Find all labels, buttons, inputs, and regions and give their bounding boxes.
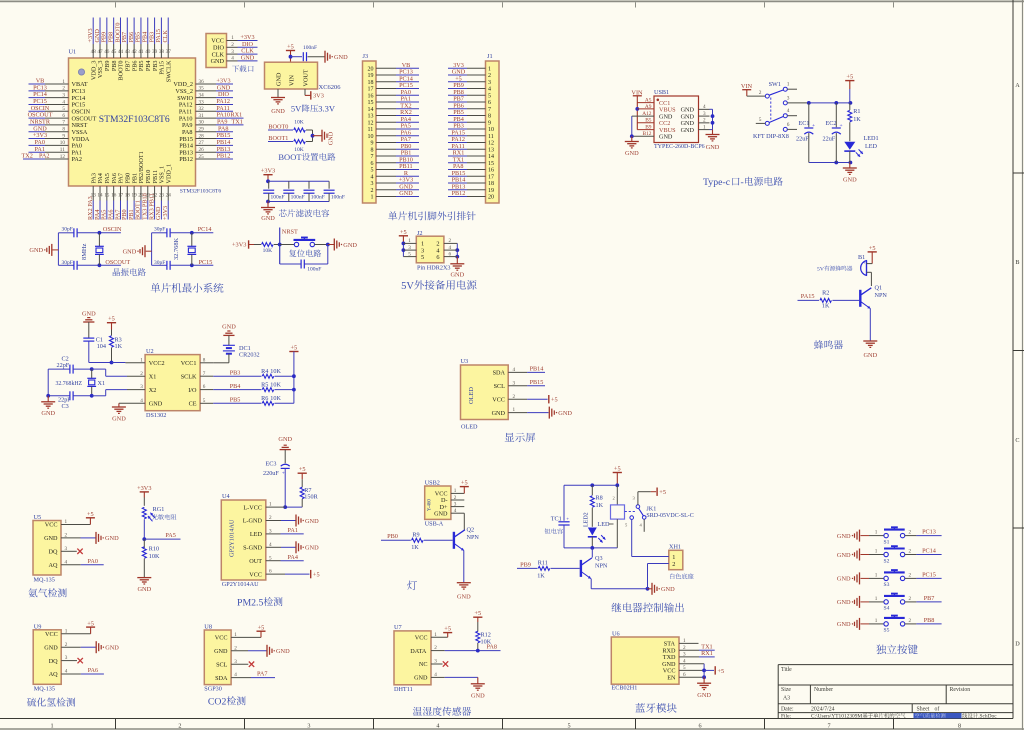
svg-text:NPN: NPN: [467, 534, 480, 541]
svg-text:L-GND: L-GND: [243, 518, 263, 525]
svg-text:I/O: I/O: [188, 387, 197, 394]
svg-text:S2: S2: [884, 558, 890, 564]
usb socket USB2 body: [425, 479, 465, 527]
power +5 R7: [298, 466, 307, 487]
Q1 emitter to ground: [863, 309, 877, 360]
R4R5R6 +5 rail: [289, 345, 298, 404]
switch SW1 pole 5-4: [756, 108, 797, 125]
connector XH1 body: [669, 544, 694, 579]
svg-text:C: C: [1015, 437, 1019, 444]
svg-text:30pF: 30pF: [154, 226, 165, 232]
switch SW1 pin 3 output: [783, 95, 809, 105]
svg-text:R12: R12: [481, 631, 491, 638]
power +5 R12: [473, 610, 482, 631]
svg-text:Pin HDR2X3: Pin HDR2X3: [417, 264, 451, 271]
U1 pin 48 VDD_3: [87, 18, 97, 81]
svg-text:+5: +5: [287, 44, 294, 51]
svg-text:S4: S4: [884, 606, 890, 612]
svg-text:GND: GND: [471, 693, 485, 700]
USB2 +5 power: [460, 479, 469, 493]
net label PB9 resistor R11 1K: [517, 559, 580, 579]
svg-text:.SchDoc: .SchDoc: [978, 714, 997, 720]
U1 pin 37 SWCLK: [162, 18, 172, 83]
svg-text:+5: +5: [614, 466, 621, 473]
svg-text:30pF: 30pF: [62, 226, 73, 232]
resistor R1 1K: [848, 103, 861, 141]
svg-text:GP2Y1014AU: GP2Y1014AU: [229, 519, 236, 557]
J1 pin 9 PB4: [448, 116, 491, 127]
svg-text:VCC: VCC: [45, 522, 58, 529]
svg-text:10K: 10K: [149, 553, 160, 560]
svg-text:GND: GND: [44, 535, 58, 542]
transistor Q3 NPN: [581, 548, 608, 579]
svg-text:GND: GND: [138, 586, 152, 593]
power +5 buzzer: [868, 245, 877, 264]
J1 pin 17 PB15: [448, 170, 494, 181]
svg-text:+: +: [812, 123, 815, 129]
svg-text:8: 8: [488, 114, 491, 120]
svg-text:20: 20: [368, 66, 374, 72]
display U3 OLED body: [461, 358, 509, 431]
J1 pin 14 RX1: [448, 150, 494, 161]
header J1 body: [486, 53, 500, 203]
U1 pin 36 VDD_2: [173, 78, 233, 89]
J1 pin 19 PB13: [448, 183, 494, 194]
svg-text:30pF: 30pF: [62, 260, 73, 266]
U1 pin 15 PA5: [101, 173, 111, 220]
svg-text:SWCLK: SWCLK: [165, 60, 172, 82]
svg-text:PB0: PB0: [387, 533, 398, 540]
svg-text:PC15: PC15: [922, 571, 936, 578]
svg-text:22pF: 22pF: [57, 362, 70, 369]
svg-text:GND: GND: [305, 518, 319, 525]
transistor Q2 NPN: [454, 513, 480, 550]
U8 pin2 ground: [231, 645, 290, 657]
U1 pin 47 VSS_3: [94, 18, 104, 79]
svg-text:19: 19: [488, 188, 494, 194]
svg-text:R10: R10: [149, 545, 159, 552]
capacitor TC1 tantalum: [545, 485, 570, 548]
svg-text:1: 1: [875, 530, 878, 536]
U1 pin 32 PA11: [179, 105, 233, 116]
svg-text:NPN: NPN: [595, 562, 608, 569]
svg-text:GND: GND: [211, 58, 225, 65]
USB1 shell ground wiring: [625, 116, 654, 157]
svg-text:of: of: [935, 706, 940, 713]
svg-text:VIN: VIN: [288, 74, 295, 86]
frame column numbers: [51, 722, 962, 729]
J2 right wiring: [444, 238, 459, 258]
svg-text:17: 17: [488, 174, 494, 180]
svg-text:PB15: PB15: [530, 379, 544, 386]
svg-text:VCC: VCC: [249, 571, 262, 578]
svg-text:MQ-135: MQ-135: [34, 686, 55, 693]
svg-text:16: 16: [368, 93, 374, 99]
svg-text:6: 6: [488, 100, 491, 106]
svg-text:1: 1: [875, 572, 878, 578]
svg-text:GND: GND: [837, 599, 851, 606]
svg-text:PB5: PB5: [230, 397, 241, 404]
caption BOOT setup circuit: [278, 152, 335, 162]
svg-text:S5: S5: [884, 628, 890, 634]
svg-text:GND: GND: [697, 692, 711, 699]
svg-text:32.768kHZ: 32.768kHZ: [56, 381, 83, 387]
net label BOOT1 and resistor 10K: [268, 135, 313, 153]
capacitor 100nF #2: [283, 181, 304, 201]
svg-text:+3V3: +3V3: [162, 206, 169, 220]
capacitor EC3 220uF: [263, 460, 290, 507]
svg-text:1: 1: [672, 554, 675, 561]
svg-text:4: 4: [436, 722, 439, 729]
svg-text:2: 2: [703, 118, 706, 124]
svg-text:CE: CE: [189, 401, 197, 408]
svg-text:100nF: 100nF: [303, 45, 317, 51]
svg-text:+: +: [282, 471, 285, 477]
svg-text:12: 12: [488, 141, 494, 147]
svg-text:GND: GND: [434, 510, 448, 517]
svg-text:Title: Title: [781, 667, 792, 673]
svg-text:R5: R5: [261, 381, 268, 388]
J1 pin 12 PA12: [448, 136, 494, 147]
svg-text:10K: 10K: [263, 248, 273, 254]
svg-text:2: 2: [759, 90, 762, 96]
J1 pin 10 PB3: [448, 123, 494, 134]
left vertical and ground C2C3: [41, 369, 55, 417]
svg-text:VCC: VCC: [492, 396, 505, 403]
svg-text:3: 3: [307, 722, 310, 729]
svg-text:R1: R1: [853, 108, 860, 115]
crystal circuit 32.768K: [152, 226, 214, 270]
svg-text:4: 4: [449, 245, 452, 251]
svg-text:+5: +5: [108, 316, 115, 323]
U5 pin4 PA0: [61, 558, 104, 565]
download port pin 4 GND: [211, 55, 258, 66]
svg-text:PC14: PC14: [198, 226, 212, 233]
U1 pin 23 VSS_1: [155, 166, 165, 220]
caption chip filter capacitors: [279, 209, 329, 217]
U1 pin 5 OSCIN: [29, 105, 91, 116]
diode LED2: [584, 512, 614, 548]
svg-text:PM2.5: PM2.5: [237, 597, 264, 608]
button S5 row: [837, 616, 942, 634]
svg-text:GND: GND: [558, 410, 572, 417]
J3 pin 15 PA1: [368, 96, 420, 107]
svg-text:PA7: PA7: [257, 671, 267, 678]
capacitor 100nF reset loop: [280, 245, 328, 273]
svg-text:GND: GND: [661, 586, 675, 593]
U4 pin3 PA1: [266, 527, 304, 534]
svg-text:1: 1: [231, 35, 234, 41]
download port pin 3 CLK: [212, 48, 258, 59]
svg-text:+5: +5: [299, 466, 306, 473]
J1 pin 2 GND: [448, 69, 491, 80]
regulator GND pin to ground: [271, 89, 285, 115]
svg-text:+5: +5: [717, 668, 724, 675]
svg-text:GND: GND: [44, 644, 58, 651]
svg-text:22uF: 22uF: [796, 135, 809, 142]
resistor R3 1K: [110, 336, 123, 365]
J1 pin 20 PB12: [448, 190, 494, 201]
U1 pin 28 PB15: [179, 132, 233, 143]
svg-text:GND: GND: [328, 131, 335, 145]
svg-text:10K: 10K: [270, 368, 281, 375]
svg-text:GND: GND: [123, 249, 137, 256]
download port pin 2 DIO: [213, 41, 258, 52]
caption bluetooth module: [635, 703, 676, 713]
J1 pin 1 3V3: [448, 62, 491, 73]
svg-text:RG1: RG1: [153, 506, 165, 513]
svg-text:KFT DIP-8X8: KFT DIP-8X8: [753, 133, 789, 140]
caption 氨气检测: [28, 588, 66, 597]
U2 pin3 wire: [92, 390, 145, 396]
svg-text:6: 6: [371, 161, 374, 167]
rtc U2 DS1302 body: [140, 348, 206, 419]
RG1 output node PA5: [142, 519, 180, 541]
svg-text:+5: +5: [87, 620, 94, 627]
svg-text:+5: +5: [659, 489, 666, 496]
svg-text:EN: EN: [667, 674, 676, 681]
svg-text:12: 12: [368, 120, 374, 126]
caption 5V active buzzer: [817, 266, 852, 273]
button S1 row: [837, 527, 942, 545]
J1 pin 11 PA15: [448, 129, 494, 140]
svg-text:CO2: CO2: [208, 697, 227, 708]
XH1 pin2 to ground rail: [648, 564, 669, 589]
svg-text:PC14: PC14: [922, 548, 936, 555]
caption independent buttons: [876, 644, 917, 654]
svg-text:PB7: PB7: [924, 595, 935, 602]
svg-text:Q1: Q1: [875, 284, 883, 291]
svg-text:4: 4: [513, 367, 516, 373]
svg-text:+5: +5: [869, 245, 876, 252]
svg-text:TX2: TX2: [22, 153, 33, 160]
relay top rail: [564, 483, 619, 487]
svg-text:PB9: PB9: [520, 562, 531, 569]
transistor Q1 NPN: [860, 272, 887, 308]
caption lamp: [407, 581, 417, 591]
J1 pin 4 PB9: [448, 82, 491, 93]
svg-text:GND: GND: [837, 552, 851, 559]
svg-text:GND: GND: [451, 272, 465, 279]
reset push button: [280, 238, 330, 247]
svg-text:R8: R8: [596, 495, 603, 502]
diode LED1: [844, 135, 878, 157]
svg-text:PB8: PB8: [924, 617, 935, 624]
svg-text:7: 7: [371, 154, 374, 160]
svg-text:R2: R2: [822, 290, 829, 297]
svg-text:EC3: EC3: [266, 460, 277, 467]
U1 pin 7 NRST: [29, 119, 88, 130]
svg-text:DHT11: DHT11: [394, 686, 413, 693]
capacitor C1 104: [83, 336, 111, 362]
svg-text:SDA: SDA: [215, 675, 228, 682]
svg-text:14: 14: [488, 154, 494, 160]
svg-text:+5: +5: [313, 572, 320, 579]
J3 pin 9 PA7: [371, 136, 420, 147]
svg-text:GND: GND: [222, 324, 236, 331]
svg-text:GND: GND: [105, 645, 119, 652]
U1 pin 24 VDD_1: [162, 164, 172, 220]
U4 pin2 ground: [266, 515, 319, 527]
U9 pin4 PA6: [61, 667, 104, 674]
svg-text:10: 10: [368, 134, 374, 140]
U1 pin 39 PB3: [148, 18, 158, 72]
caption crystal circuit: [113, 268, 146, 276]
svg-text:15: 15: [368, 100, 374, 106]
switch SW1 pin 6: [783, 122, 797, 131]
svg-text:SCL: SCL: [494, 383, 506, 390]
caption mcu pin breakout headers: [388, 211, 476, 220]
ground right of 100nF: [325, 51, 348, 63]
net label PB0 resistor R9 1K: [381, 531, 453, 551]
svg-text:AQ: AQ: [49, 562, 58, 569]
svg-text:+5: +5: [291, 345, 298, 352]
USB1 pin B12 GND: [643, 131, 673, 140]
svg-text:3: 3: [787, 95, 790, 101]
U1 pin 3 PC14: [29, 91, 86, 102]
svg-text:2: 2: [909, 548, 912, 554]
wire switch output bus: [807, 101, 852, 164]
capacitor 100nF at regulator: [291, 45, 325, 61]
svg-text:A3: A3: [783, 696, 790, 702]
svg-text:USB1: USB1: [654, 89, 669, 96]
mcu U1 STM32F103C8T6 body: [69, 49, 222, 195]
sensor U5 MQ-135 body: [33, 514, 68, 583]
svg-text:GND: GND: [492, 410, 506, 417]
ground reset: [328, 239, 358, 251]
U1 pin 38 PA15: [155, 18, 165, 75]
svg-text:2: 2: [909, 596, 912, 602]
svg-text:GND: GND: [241, 55, 255, 62]
svg-text:6: 6: [436, 254, 439, 261]
net NRST: [278, 228, 298, 265]
U1 pin 34 SWIO: [177, 91, 233, 102]
U4 pin1 wire: [266, 506, 285, 508]
svg-text:VCC2: VCC2: [149, 360, 165, 367]
U1 pin 2 PC13: [29, 84, 86, 95]
svg-text:SCL: SCL: [216, 661, 228, 668]
USB1 pin B5 CC2: [645, 118, 670, 127]
svg-text:1K: 1K: [853, 116, 861, 123]
ground RG1: [137, 577, 151, 593]
svg-text:R6: R6: [261, 395, 268, 402]
svg-text:PA1: PA1: [288, 527, 298, 534]
J3 pin 1 GND: [371, 190, 420, 201]
svg-text:30pF: 30pF: [154, 260, 165, 266]
svg-text:7: 7: [488, 107, 491, 113]
J3 pin 4 R: [371, 170, 420, 181]
svg-text:EC1: EC1: [799, 120, 810, 127]
svg-text:XC6206: XC6206: [319, 84, 342, 91]
svg-text:GND: GND: [837, 621, 851, 628]
svg-text:6: 6: [787, 122, 790, 128]
svg-text:PB14: PB14: [530, 366, 544, 373]
USB1 right ground bus: [706, 109, 720, 151]
svg-text:11: 11: [488, 134, 494, 140]
svg-text:5V: 5V: [401, 281, 414, 292]
svg-text:1K: 1K: [115, 343, 123, 350]
svg-text:GND: GND: [149, 401, 163, 408]
U2 pin4 ground: [112, 403, 145, 422]
J3 pin 3 +3V3: [371, 177, 420, 188]
svg-text:1: 1: [408, 238, 411, 244]
svg-text:+: +: [566, 517, 569, 522]
battery DC1 CR2032: [213, 324, 259, 363]
svg-text:GND: GND: [843, 177, 857, 184]
svg-text:U7: U7: [394, 624, 402, 631]
ground above EC3: [278, 436, 292, 463]
svg-text:7: 7: [828, 722, 831, 729]
title block file highlight: [914, 713, 998, 720]
svg-text:1: 1: [875, 548, 878, 554]
svg-text:2: 2: [488, 73, 491, 79]
svg-text:RX1: RX1: [701, 650, 713, 657]
svg-text:10K: 10K: [294, 119, 304, 125]
svg-text:PA4: PA4: [288, 554, 298, 561]
svg-text:Q2: Q2: [467, 526, 475, 533]
U1 pin 33 PA12: [179, 98, 233, 109]
power +5 relay: [613, 466, 622, 486]
J3 pin 12 PA4: [368, 116, 420, 127]
svg-text:B: B: [1015, 259, 1019, 266]
U1 pin 20 PB2/BOOT1: [135, 151, 145, 220]
svg-text:1: 1: [875, 618, 878, 624]
svg-text:220uF: 220uF: [263, 470, 279, 477]
U3 pin 4 SDA: [493, 366, 545, 377]
U4 pin4 ground: [266, 541, 319, 553]
svg-text:JK1: JK1: [646, 505, 656, 512]
svg-text:-: -: [741, 177, 744, 188]
svg-text:LED: LED: [250, 531, 263, 538]
J1 pin 7 PB6: [448, 102, 491, 113]
svg-text:GND: GND: [399, 190, 413, 197]
svg-text:SRD-05VDC-SL-C: SRD-05VDC-SL-C: [646, 513, 693, 519]
J1 pin 8 PB5: [448, 109, 491, 120]
capacitor C3 22pF: [48, 391, 93, 410]
svg-text:TYPEC-260D-BCP6: TYPEC-260D-BCP6: [654, 144, 705, 150]
svg-text:GND: GND: [414, 675, 428, 682]
svg-text:9: 9: [371, 141, 374, 147]
svg-text:R11: R11: [538, 559, 548, 566]
svg-text:GND: GND: [837, 576, 851, 583]
power +3V3 for filter caps: [261, 168, 275, 184]
J1 pin 13 PA11: [448, 143, 494, 154]
capacitor EC2 22uF: [823, 103, 843, 163]
svg-text:2: 2: [909, 530, 912, 536]
svg-text:ECB02H1: ECB02H1: [612, 685, 638, 692]
svg-text:SDA: SDA: [493, 370, 506, 377]
J3 pin 20 VB: [368, 62, 420, 73]
J2 ground: [450, 257, 464, 279]
svg-text:+3V3: +3V3: [261, 168, 275, 175]
J1 pin 5 PB8: [448, 89, 491, 100]
regulator U? XC6206 body: [265, 62, 342, 91]
svg-text:X1: X1: [98, 380, 106, 387]
U1 pin 11 PA1: [29, 146, 82, 157]
crystal circuit 8MHz: [58, 226, 130, 270]
svg-text:3V3: 3V3: [313, 93, 324, 100]
ground crystal 1: [29, 244, 58, 256]
U1 pin 27 PB14: [179, 139, 233, 150]
U1 pin 40 PB4: [142, 18, 152, 72]
svg-text:5: 5: [568, 722, 571, 729]
button S4 row: [837, 594, 942, 612]
svg-text:Size: Size: [781, 687, 791, 693]
svg-text:4: 4: [703, 104, 706, 110]
svg-text:19: 19: [368, 73, 374, 79]
svg-text:USB2: USB2: [425, 479, 440, 486]
svg-text:LED: LED: [865, 143, 878, 150]
